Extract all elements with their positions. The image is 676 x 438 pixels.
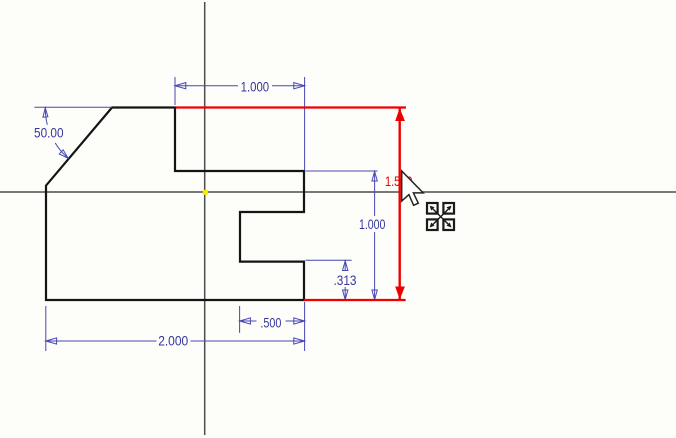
dim 1.000 top: value label xyxy=(241,79,270,95)
dim 50.00 angle: lower arc segment xyxy=(55,143,68,158)
dim .500: right arrowhead xyxy=(294,318,305,324)
vertical axis xyxy=(204,2,206,435)
horizontal axis xyxy=(0,191,676,193)
dim .500: value label xyxy=(260,315,281,331)
dim 50.00 angle: lower arrowhead xyxy=(59,150,68,159)
dim 2.000: value label xyxy=(158,334,188,350)
red drag dim: bottom arrowhead xyxy=(395,287,405,300)
svg-text:.313: .313 xyxy=(334,273,357,289)
move glyph: bottom-right box xyxy=(443,219,454,230)
dim 50.00 angle: extension line xyxy=(34,106,112,108)
move glyph: top-left box xyxy=(427,203,438,214)
dim 1.000 vertical: top extension line xyxy=(306,170,378,172)
dim .313: extension line xyxy=(306,259,352,261)
dim 50.00 angle: value label xyxy=(34,125,64,141)
red drag dim: value label 1.500 xyxy=(385,174,413,190)
move glyph: bottom-left box xyxy=(427,219,438,230)
dim .313: bottom arrowhead xyxy=(343,290,348,300)
dim .500: left arrowhead xyxy=(240,318,251,324)
dim .500: dimension line xyxy=(240,320,305,322)
dim .313: value label xyxy=(334,273,357,289)
move glyph: diagonal arrows xyxy=(430,206,452,228)
dim 1.000 top: right arrowhead xyxy=(294,83,305,89)
dim 1.000 vertical: bottom arrowhead xyxy=(372,290,377,300)
dim 50.00 angle: upper arc segment xyxy=(45,108,47,125)
mouse cursor arrow xyxy=(402,171,424,205)
dim 1.000 vertical: top arrowhead xyxy=(372,172,377,182)
red drag dim: dimension line xyxy=(399,108,401,300)
dim 1.000 vertical: dimension line xyxy=(374,171,376,300)
dim 2.000: right arrowhead xyxy=(294,338,305,344)
dim 50.00 angle: upper arrowhead xyxy=(43,108,48,117)
red drag dim: top reference line xyxy=(176,106,406,108)
dim .500: left extension line xyxy=(239,306,241,333)
red drag dim: top arrowhead xyxy=(395,108,405,121)
move glyph: top-right box xyxy=(443,203,454,214)
origin point xyxy=(203,190,208,195)
dim .313: dimension line xyxy=(344,260,346,300)
svg-text:50.00: 50.00 xyxy=(34,125,64,141)
svg-text:1.000: 1.000 xyxy=(359,217,386,233)
dim 1.000 top: right extension line xyxy=(304,77,306,171)
profile outline xyxy=(46,108,304,301)
dim 1.000 top: dimension line xyxy=(175,85,305,87)
dim 1.000 top: left extension line xyxy=(174,77,176,105)
svg-text:2.000: 2.000 xyxy=(158,334,188,350)
dim .313: top arrowhead xyxy=(343,261,348,271)
svg-text:.500: .500 xyxy=(260,315,281,331)
dim 2.000: left arrowhead xyxy=(46,338,57,344)
dim .500: right extension line xyxy=(304,302,306,351)
dim 2.000: dimension line xyxy=(46,340,305,342)
dim 1.000 vertical: value label xyxy=(359,217,386,233)
dim 2.000: left extension line xyxy=(45,306,47,351)
svg-text:1.000: 1.000 xyxy=(241,79,270,95)
dim 1.000 top: left arrowhead xyxy=(175,83,186,89)
red drag dim: bottom reference line xyxy=(304,299,406,301)
